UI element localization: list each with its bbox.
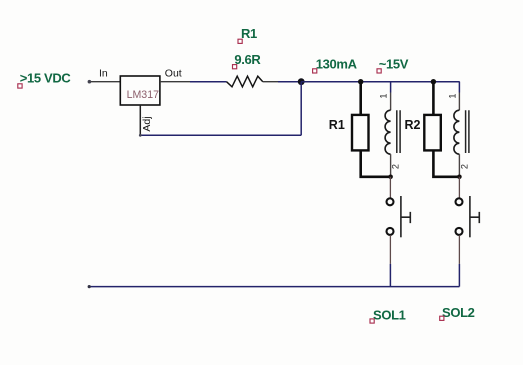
- switch SW1 actuator bar: [400, 196, 402, 237]
- node ~15V marker: [377, 69, 381, 73]
- resistor R2 box body: [424, 115, 441, 150]
- svg-text:1: 1: [447, 93, 457, 98]
- svg-text:Adj: Adj: [141, 116, 153, 131]
- switch SW1 bottom pin lead: [389, 235, 391, 264]
- node 130mA marker: [313, 69, 317, 73]
- wire feedback run to Adj: [140, 134, 301, 136]
- svg-text:LM317: LM317: [127, 89, 159, 101]
- wire node A down to feedback run: [300, 82, 302, 136]
- junction node A dot: [298, 78, 305, 85]
- svg-text:130mA: 130mA: [316, 57, 358, 72]
- resistor R1 right lead: [263, 81, 278, 83]
- wire SW1 to ground bus: [389, 264, 391, 287]
- svg-text:R2: R2: [405, 118, 421, 132]
- junction Adj corner dot: [139, 134, 142, 137]
- solenoid SOL1 coil bottom lead: [390, 154, 392, 177]
- svg-text:SOL1: SOL1: [373, 308, 406, 323]
- switch SW2 top terminal circle: [456, 198, 463, 205]
- resistor R2 box bottom lead L-shape: [433, 151, 459, 177]
- wire top rail node A to coil 2: [301, 81, 460, 83]
- svg-text:SOL2: SOL2: [442, 305, 475, 320]
- node input endpoint dot: [88, 80, 92, 84]
- U1 Out pin lead: [160, 81, 190, 83]
- switch SW2 bottom pin lead: [458, 235, 460, 264]
- solenoid SOL1 coil winding: [385, 110, 390, 154]
- resistor R1 value marker: [233, 65, 237, 69]
- switch SW1 top terminal circle: [387, 198, 394, 205]
- switch SW1 button stem and cap: [401, 212, 410, 223]
- svg-text:In: In: [99, 68, 108, 80]
- svg-text:R1: R1: [241, 26, 257, 41]
- node SOL2 marker: [440, 316, 444, 320]
- resistor R1 name marker: [238, 39, 242, 43]
- resistor R2 box top lead: [432, 82, 435, 115]
- wire Out to resistor R1: [190, 81, 227, 83]
- solenoid SOL1 core lines: [397, 110, 400, 153]
- node bus left endpoint dot: [88, 285, 91, 288]
- svg-text:R1: R1: [329, 118, 345, 132]
- solenoid SOL2 coil top lead: [458, 82, 460, 93]
- switch SW1 bottom terminal circle: [387, 228, 394, 235]
- switch SW2 bottom terminal circle: [456, 228, 463, 235]
- switch SW2 button stem and cap: [470, 212, 479, 223]
- svg-text:2: 2: [391, 164, 401, 169]
- op-amp regulator U1 LM317 body: [120, 76, 160, 105]
- wire ground return bus: [89, 286, 460, 288]
- wire input lead from >15 VDC to LM317 In: [89, 81, 120, 83]
- resistor R1 box body: [352, 115, 369, 150]
- resistor R1 box top lead: [359, 82, 362, 115]
- switch SW2 top pin lead: [458, 177, 460, 198]
- svg-text:~15V: ~15V: [379, 57, 409, 72]
- junction dot rail to R1 box: [358, 79, 363, 84]
- svg-text:Out: Out: [165, 68, 182, 80]
- wire resistor to node A: [278, 81, 301, 83]
- svg-text:1: 1: [379, 93, 389, 98]
- wire SW2 to ground bus corner: [458, 264, 460, 287]
- svg-text:>15 VDC: >15 VDC: [20, 71, 72, 86]
- junction dot rail to R2 box: [431, 79, 436, 84]
- U1 Adj pin lead: [139, 105, 141, 135]
- node SOL1 marker: [370, 319, 374, 323]
- solenoid SOL1 coil top lead: [390, 82, 392, 93]
- svg-text:9.6R: 9.6R: [234, 52, 261, 67]
- solenoid SOL2 coil winding: [454, 110, 459, 154]
- switch SW2 actuator bar: [469, 196, 471, 237]
- junction node B dot: [388, 175, 393, 180]
- solenoid SOL2 core lines: [466, 110, 469, 153]
- resistor R1 box bottom lead L-shape: [361, 151, 391, 177]
- node >15 VDC pin marker: [18, 84, 22, 88]
- switch SW1 top pin lead: [389, 177, 391, 198]
- svg-text:2: 2: [459, 164, 469, 169]
- junction node C dot: [457, 175, 462, 180]
- resistor R1 zigzag 9.6R: [227, 76, 263, 87]
- solenoid SOL2 coil bottom lead: [458, 154, 460, 177]
